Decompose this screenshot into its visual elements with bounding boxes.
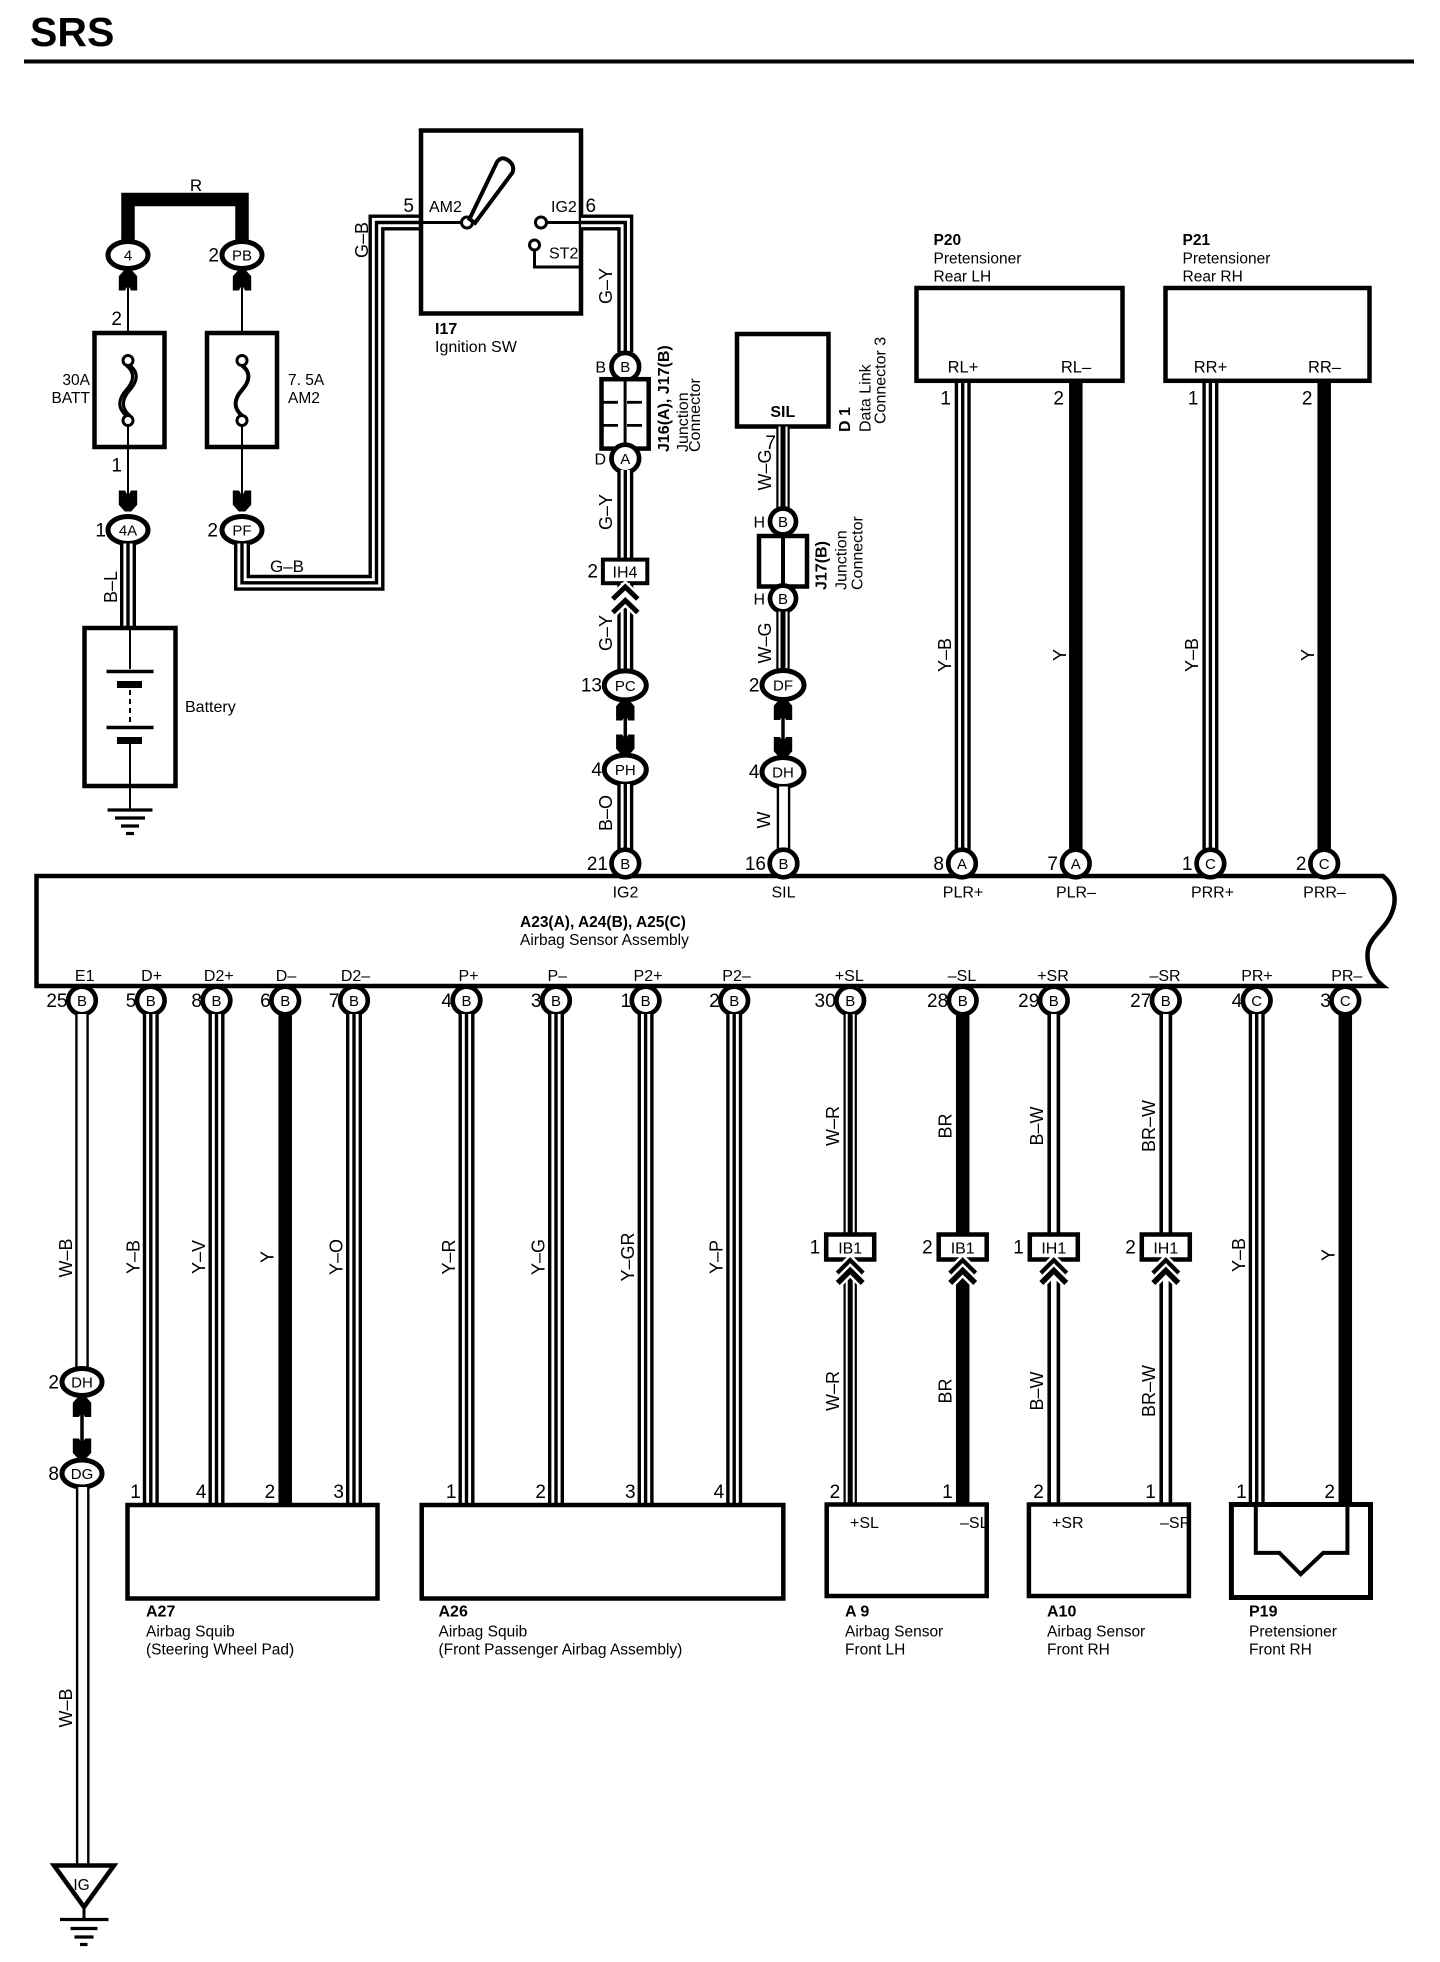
svg-text:2: 2: [207, 521, 218, 542]
svg-text:PH: PH: [615, 762, 636, 779]
svg-text:2: 2: [1053, 389, 1064, 410]
svg-text:30A: 30A: [62, 372, 90, 389]
svg-text:B–L: B–L: [101, 571, 121, 603]
svg-text:D2+: D2+: [204, 968, 234, 985]
svg-text:4: 4: [714, 1482, 725, 1503]
svg-text:G–B: G–B: [270, 557, 304, 576]
svg-text:+SR: +SR: [1037, 968, 1069, 985]
svg-text:–SR: –SR: [1149, 968, 1180, 985]
svg-text:IG2: IG2: [613, 885, 639, 902]
svg-text:A26: A26: [439, 1604, 468, 1621]
svg-text:1: 1: [446, 1482, 457, 1503]
svg-text:8: 8: [191, 991, 202, 1012]
svg-text:2: 2: [749, 676, 760, 697]
svg-text:B: B: [845, 993, 855, 1010]
svg-text:Y–V: Y–V: [189, 1240, 209, 1274]
svg-text:–SR: –SR: [1160, 1515, 1191, 1532]
svg-text:IG: IG: [73, 1877, 89, 1894]
svg-text:30: 30: [815, 991, 836, 1012]
svg-text:Pretensioner: Pretensioner: [1249, 1624, 1337, 1641]
svg-text:3: 3: [333, 1482, 344, 1503]
svg-text:DH: DH: [71, 1375, 93, 1392]
svg-text:R: R: [190, 176, 202, 195]
svg-text:7: 7: [329, 991, 340, 1012]
svg-text:5: 5: [126, 991, 137, 1012]
svg-text:W–G: W–G: [755, 449, 775, 490]
svg-text:Rear RH: Rear RH: [1183, 269, 1243, 286]
svg-text:1: 1: [1236, 1482, 1247, 1503]
svg-text:Y: Y: [1050, 649, 1070, 661]
svg-text:B: B: [77, 993, 87, 1010]
svg-text:AM2: AM2: [288, 390, 320, 407]
svg-text:Y–B: Y–B: [1229, 1238, 1249, 1272]
svg-text:RR+: RR+: [1194, 359, 1227, 377]
svg-text:1: 1: [1182, 854, 1193, 875]
svg-text:Y–B: Y–B: [1182, 638, 1202, 672]
svg-text:J17(B): J17(B): [814, 541, 831, 590]
svg-text:SRS: SRS: [30, 9, 114, 55]
svg-text:1: 1: [1013, 1238, 1024, 1259]
svg-text:AM2: AM2: [429, 199, 462, 216]
svg-text:2: 2: [48, 1373, 59, 1394]
svg-text:13: 13: [581, 676, 602, 697]
svg-text:Y–B: Y–B: [935, 638, 955, 672]
svg-text:3: 3: [531, 991, 542, 1012]
svg-text:A 9: A 9: [845, 1604, 869, 1621]
svg-text:1: 1: [95, 521, 106, 542]
svg-text:RL–: RL–: [1061, 359, 1092, 377]
svg-text:1: 1: [1145, 1482, 1156, 1503]
svg-text:2: 2: [1033, 1482, 1044, 1503]
svg-text:G–Y: G–Y: [596, 494, 616, 530]
svg-text:6: 6: [260, 991, 271, 1012]
svg-text:Y–R: Y–R: [439, 1239, 459, 1274]
svg-text:27: 27: [1130, 991, 1151, 1012]
svg-text:I17: I17: [435, 321, 457, 338]
svg-text:J16(A), J17(B): J16(A), J17(B): [656, 345, 673, 452]
svg-text:Airbag Sensor: Airbag Sensor: [845, 1624, 943, 1641]
svg-text:W–B: W–B: [56, 1238, 76, 1277]
svg-text:8: 8: [933, 854, 944, 875]
svg-text:4: 4: [196, 1482, 207, 1503]
svg-text:D–: D–: [276, 968, 297, 985]
svg-text:B: B: [1161, 993, 1171, 1010]
svg-text:2: 2: [1324, 1482, 1335, 1503]
svg-text:BR: BR: [936, 1113, 956, 1138]
svg-text:B: B: [620, 359, 630, 376]
svg-text:2: 2: [265, 1482, 276, 1503]
svg-text:Y–P: Y–P: [707, 1240, 727, 1274]
svg-text:G–Y: G–Y: [596, 615, 616, 651]
svg-text:2: 2: [111, 309, 122, 330]
svg-text:B: B: [778, 591, 788, 608]
svg-text:A: A: [1071, 856, 1081, 873]
svg-text:Front LH: Front LH: [845, 1642, 905, 1659]
svg-text:B: B: [349, 993, 359, 1010]
svg-text:Connector: Connector: [850, 516, 867, 590]
svg-text:BR: BR: [936, 1378, 956, 1403]
svg-text:C: C: [1205, 856, 1216, 873]
svg-text:P19: P19: [1249, 1604, 1278, 1621]
svg-text:D 1: D 1: [837, 407, 854, 432]
svg-text:P2–: P2–: [722, 968, 751, 985]
svg-text:B–W: B–W: [1027, 1371, 1047, 1410]
svg-text:BR–W: BR–W: [1139, 1365, 1159, 1417]
svg-text:A10: A10: [1047, 1604, 1076, 1621]
svg-text:1: 1: [942, 1482, 953, 1503]
svg-text:B: B: [551, 993, 561, 1010]
svg-text:1: 1: [810, 1238, 821, 1259]
svg-text:B: B: [595, 360, 606, 377]
svg-text:PB: PB: [232, 248, 252, 265]
svg-text:DH: DH: [772, 765, 794, 782]
svg-text:IH4: IH4: [613, 565, 638, 582]
svg-text:PF: PF: [232, 523, 251, 540]
svg-text:(Steering Wheel Pad): (Steering Wheel Pad): [146, 1642, 294, 1659]
svg-text:1: 1: [621, 991, 632, 1012]
svg-text:Airbag Sensor: Airbag Sensor: [1047, 1624, 1145, 1641]
svg-text:C: C: [1251, 993, 1262, 1010]
svg-text:PRR–: PRR–: [1303, 885, 1346, 902]
svg-text:W: W: [754, 812, 774, 829]
svg-text:2: 2: [709, 991, 720, 1012]
svg-text:Y–G: Y–G: [529, 1239, 549, 1275]
svg-text:4: 4: [1232, 991, 1243, 1012]
svg-text:PRR+: PRR+: [1191, 885, 1234, 902]
svg-text:B: B: [641, 993, 651, 1010]
svg-text:D: D: [594, 452, 606, 469]
svg-text:PLR–: PLR–: [1056, 885, 1096, 902]
svg-text:29: 29: [1018, 991, 1039, 1012]
svg-text:Y: Y: [1298, 649, 1318, 661]
svg-text:1: 1: [1188, 389, 1199, 410]
svg-text:2: 2: [1302, 389, 1313, 410]
svg-text:6: 6: [586, 196, 597, 217]
svg-text:Junction: Junction: [834, 530, 851, 590]
svg-text:P2+: P2+: [634, 968, 663, 985]
svg-text:Connector: Connector: [687, 378, 704, 452]
svg-text:1: 1: [130, 1482, 141, 1503]
svg-text:4A: 4A: [119, 523, 137, 540]
svg-text:5: 5: [403, 196, 414, 217]
svg-text:(Front Passenger Airbag Assemb: (Front Passenger Airbag Assembly): [439, 1642, 683, 1659]
svg-text:A: A: [957, 856, 967, 873]
svg-text:B: B: [729, 993, 739, 1010]
svg-text:PR–: PR–: [1331, 968, 1362, 985]
svg-text:B: B: [778, 856, 788, 873]
svg-text:2: 2: [535, 1482, 546, 1503]
svg-text:2: 2: [1125, 1238, 1136, 1259]
svg-text:P20: P20: [934, 232, 962, 249]
svg-text:Y: Y: [258, 1251, 278, 1263]
svg-text:Battery: Battery: [185, 699, 236, 716]
svg-text:P21: P21: [1183, 232, 1211, 249]
svg-text:H: H: [753, 592, 765, 609]
svg-text:–SL: –SL: [948, 968, 977, 985]
svg-text:+SL: +SL: [850, 1515, 879, 1532]
svg-text:C: C: [1319, 856, 1330, 873]
svg-text:Pretensioner: Pretensioner: [1183, 251, 1271, 268]
svg-text:25: 25: [46, 991, 67, 1012]
svg-text:B: B: [211, 993, 221, 1010]
svg-text:B–O: B–O: [596, 795, 616, 831]
svg-text:2: 2: [922, 1238, 933, 1259]
svg-text:4: 4: [441, 991, 452, 1012]
svg-text:SIL: SIL: [771, 885, 795, 902]
svg-text:7: 7: [1047, 854, 1058, 875]
svg-text:SIL: SIL: [770, 404, 795, 421]
svg-text:BATT: BATT: [52, 390, 91, 407]
svg-text:PLR+: PLR+: [943, 885, 983, 902]
svg-text:Pretensioner: Pretensioner: [934, 251, 1022, 268]
svg-text:H: H: [753, 515, 765, 532]
svg-text:G–Y: G–Y: [596, 268, 616, 304]
svg-text:D+: D+: [141, 968, 162, 985]
svg-text:21: 21: [587, 854, 608, 875]
svg-text:B: B: [146, 993, 156, 1010]
svg-text:Y–GR: Y–GR: [618, 1232, 638, 1281]
svg-text:DG: DG: [71, 1466, 94, 1483]
svg-text:7. 5A: 7. 5A: [288, 372, 325, 389]
svg-text:Airbag Squib: Airbag Squib: [146, 1624, 235, 1641]
svg-text:Front RH: Front RH: [1249, 1642, 1312, 1659]
svg-text:B: B: [280, 993, 290, 1010]
svg-text:Ignition SW: Ignition SW: [435, 339, 518, 356]
svg-text:RR–: RR–: [1308, 359, 1342, 377]
svg-text:IG2: IG2: [551, 199, 577, 216]
svg-text:D2–: D2–: [341, 968, 370, 985]
svg-text:2: 2: [587, 562, 598, 583]
svg-text:W–B: W–B: [56, 1688, 76, 1727]
svg-text:16: 16: [745, 854, 766, 875]
svg-text:B: B: [778, 514, 788, 531]
svg-text:Front RH: Front RH: [1047, 1642, 1110, 1659]
svg-text:28: 28: [927, 991, 948, 1012]
svg-text:ST2: ST2: [549, 246, 578, 263]
svg-text:E1: E1: [75, 968, 95, 985]
svg-text:4: 4: [124, 248, 132, 265]
svg-text:DF: DF: [773, 678, 793, 695]
svg-text:RL+: RL+: [948, 359, 979, 377]
svg-text:B: B: [1049, 993, 1059, 1010]
svg-text:2: 2: [1296, 854, 1307, 875]
svg-text:PR+: PR+: [1241, 968, 1273, 985]
svg-text:Y–O: Y–O: [327, 1239, 347, 1275]
svg-text:C: C: [1340, 993, 1351, 1010]
svg-text:G–B: G–B: [352, 222, 372, 258]
svg-text:+SR: +SR: [1052, 1515, 1084, 1532]
svg-text:3: 3: [625, 1482, 636, 1503]
svg-text:W–R: W–R: [823, 1371, 843, 1411]
svg-text:–SL: –SL: [960, 1515, 989, 1532]
svg-text:P+: P+: [458, 968, 478, 985]
svg-text:BR–W: BR–W: [1139, 1100, 1159, 1152]
svg-text:Airbag Sensor Assembly: Airbag Sensor Assembly: [520, 932, 689, 949]
svg-text:4: 4: [591, 760, 602, 781]
svg-text:4: 4: [749, 762, 760, 783]
svg-text:Y–B: Y–B: [123, 1240, 143, 1274]
svg-text:+SL: +SL: [835, 968, 864, 985]
svg-text:8: 8: [48, 1464, 59, 1485]
svg-text:A23(A), A24(B), A25(C): A23(A), A24(B), A25(C): [520, 914, 686, 931]
svg-text:B: B: [461, 993, 471, 1010]
svg-text:W–R: W–R: [823, 1106, 843, 1146]
svg-text:3: 3: [1320, 991, 1331, 1012]
svg-text:B–W: B–W: [1027, 1106, 1047, 1145]
svg-text:Connector 3: Connector 3: [873, 337, 890, 424]
svg-text:Y: Y: [1319, 1249, 1339, 1261]
svg-text:B: B: [620, 856, 630, 873]
svg-text:Airbag Squib: Airbag Squib: [439, 1624, 528, 1641]
svg-text:2: 2: [208, 246, 219, 267]
svg-text:A: A: [620, 451, 630, 468]
svg-text:1: 1: [111, 456, 122, 477]
svg-text:A27: A27: [146, 1604, 175, 1621]
svg-text:1: 1: [940, 389, 951, 410]
svg-text:2: 2: [830, 1482, 841, 1503]
svg-text:PC: PC: [615, 678, 636, 695]
svg-text:Rear LH: Rear LH: [934, 269, 992, 286]
svg-text:W–G: W–G: [755, 622, 775, 663]
svg-text:P–: P–: [548, 968, 568, 985]
svg-text:B: B: [958, 993, 968, 1010]
